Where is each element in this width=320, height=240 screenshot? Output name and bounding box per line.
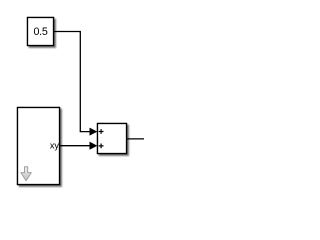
arrowhead input 1 [90,128,96,134]
svg-text:0.5: 0.5 [34,26,48,38]
arrowhead input 2 [90,143,96,149]
plus sign port 1 [99,129,104,134]
subsystem block (xy output) [18,108,60,185]
constant block C1 value 0.5 [28,18,54,46]
wire from xy to sum input 2 [60,145,91,147]
wire from constant to sum input 1 [54,32,91,132]
sum block [98,124,127,154]
gray download arrow icon [21,167,31,181]
plus sign port 2 [99,144,104,149]
output wire from sum [127,138,145,140]
svg-text:xy: xy [50,141,60,151]
